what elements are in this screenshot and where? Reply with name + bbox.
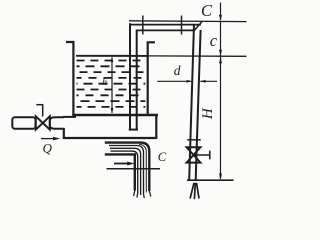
- svg-text:c: c: [210, 31, 218, 50]
- svg-text:h: h: [102, 78, 107, 88]
- svg-text:C: C: [158, 150, 167, 164]
- svg-text:Q: Q: [43, 141, 53, 156]
- svg-text:C: C: [201, 1, 213, 20]
- svg-text:H: H: [200, 107, 216, 120]
- svg-text:d: d: [174, 63, 181, 78]
